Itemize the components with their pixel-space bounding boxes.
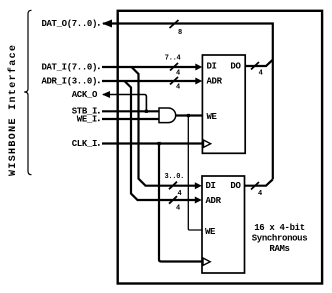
svg-text:DO: DO (230, 181, 241, 191)
svg-text:3..0.: 3..0. (165, 173, 185, 181)
svg-text:WISHBONE Interface: WISHBONE Interface (7, 44, 19, 176)
svg-text:DAT_I(7..0): DAT_I(7..0) (41, 62, 97, 72)
svg-text:DAT_O(7..0): DAT_O(7..0) (41, 19, 97, 29)
svg-text:4: 4 (259, 70, 263, 78)
svg-text:4: 4 (176, 69, 180, 77)
svg-text:WE_I: WE_I (77, 114, 97, 124)
svg-text:ADR: ADR (207, 76, 223, 86)
svg-text:WE: WE (205, 227, 216, 237)
svg-text:4: 4 (258, 190, 262, 198)
svg-text:DI: DI (207, 61, 217, 71)
svg-text:RAMs: RAMs (269, 244, 289, 254)
svg-text:DI: DI (206, 181, 216, 191)
svg-text:8: 8 (178, 29, 182, 37)
svg-text:7..4: 7..4 (165, 54, 181, 62)
svg-text:4: 4 (176, 84, 180, 92)
svg-text:16 x 4-bit: 16 x 4-bit (254, 223, 305, 233)
svg-text:ADR: ADR (206, 196, 222, 206)
svg-text:4: 4 (178, 190, 182, 198)
svg-text:Synchronous: Synchronous (252, 234, 308, 244)
svg-text:DO: DO (230, 61, 241, 71)
svg-text:WE: WE (207, 112, 218, 122)
svg-text:4: 4 (176, 204, 180, 212)
svg-text:CLK_I: CLK_I (72, 139, 97, 149)
svg-text:ADR_I(3..0): ADR_I(3..0) (41, 76, 97, 86)
svg-text:ACK_O: ACK_O (72, 90, 98, 100)
